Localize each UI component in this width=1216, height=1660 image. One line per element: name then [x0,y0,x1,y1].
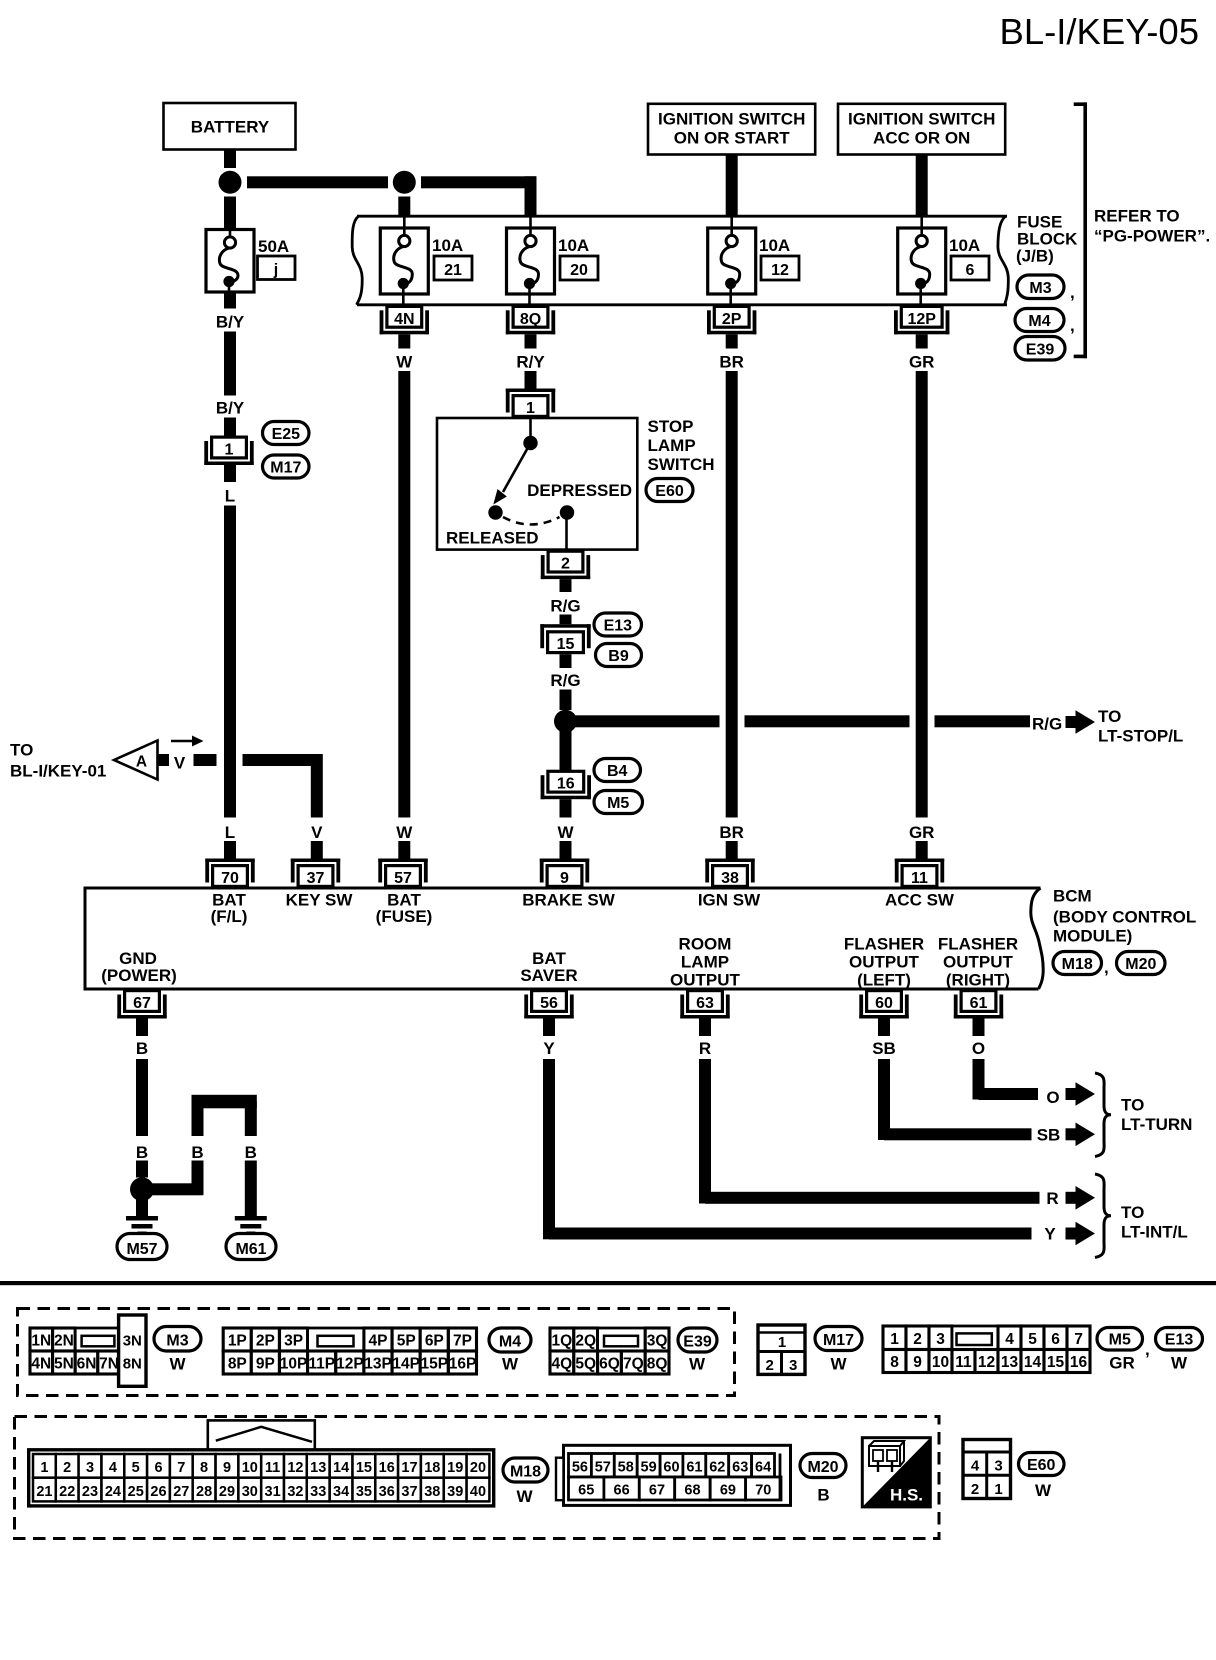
connector 12P [894,306,949,334]
label W brake [557,823,574,842]
svg-text:9: 9 [560,870,569,887]
svg-text:MODULE): MODULE) [1053,927,1132,946]
svg-text:R: R [699,1039,711,1058]
svg-text:“PG-POWER”.: “PG-POWER”. [1094,227,1210,246]
svg-text:STOP: STOP [648,417,694,436]
svg-text:12P: 12P [336,1356,364,1373]
connector oval M5 ref2 [594,791,643,814]
wire R/Y below 8Q [525,334,537,348]
svg-text:68: 68 [684,1483,700,1499]
svg-text:5: 5 [132,1460,140,1476]
svg-text:8Q: 8Q [647,1356,668,1373]
svg-text:2Q: 2Q [575,1333,596,1350]
connector table M4 [223,1328,476,1374]
svg-text:M3: M3 [166,1333,188,1350]
svg-text:(BODY CONTROL: (BODY CONTROL [1053,908,1196,927]
label FLASHER OUTPUT (RIGHT) [938,935,1018,990]
svg-text:L: L [225,823,235,842]
svg-text:31: 31 [265,1484,281,1500]
svg-text:W: W [396,353,413,372]
svg-text:E13: E13 [604,618,633,635]
wire V stub from triangle [158,754,169,766]
label FUSE BLOCK (J/B) [1016,213,1078,266]
svg-text:26: 26 [150,1484,166,1500]
label SB 60 [872,1039,896,1058]
wire V horizontal [243,754,323,766]
label W lower [396,823,413,842]
svg-text:16: 16 [379,1460,395,1476]
label REFER TO PG-POWER [1094,206,1210,245]
svg-text:E39: E39 [683,1334,712,1351]
svg-text:15: 15 [557,636,575,653]
svg-text:15: 15 [1047,1354,1065,1371]
connector oval M5 [1097,1328,1150,1360]
connector 56 [524,991,573,1019]
svg-text:15: 15 [356,1460,372,1476]
svg-text:FLASHER: FLASHER [844,935,924,954]
svg-text:M5: M5 [1109,1332,1131,1349]
wire Y horizontal [549,1228,1032,1240]
svg-text:10A: 10A [432,236,463,255]
label GR upper [909,353,935,372]
svg-text:30: 30 [242,1484,258,1500]
fuse block band left wavy edge [352,216,362,305]
fuse j value box [258,256,296,280]
svg-text:24: 24 [105,1484,121,1500]
wire V to BCM [311,841,323,859]
ignition switch acc-or-on box [838,104,1005,155]
svg-text:W: W [396,823,413,842]
svg-text:E25: E25 [272,426,301,443]
svg-text:1N: 1N [31,1333,51,1350]
stop lamp switch released contact [488,505,502,519]
svg-text:37: 37 [401,1484,417,1500]
svg-text:33: 33 [310,1484,326,1500]
svg-text:R/G: R/G [550,597,580,616]
label M3 color W [169,1355,186,1374]
svg-text:27: 27 [173,1484,189,1500]
svg-text:1: 1 [225,442,234,459]
svg-text:,: , [1145,1340,1150,1359]
svg-text:61: 61 [970,995,988,1012]
svg-text:W: W [516,1487,533,1506]
label M5 color GR [1109,1354,1135,1373]
svg-text:4Q: 4Q [552,1356,573,1373]
label ACC SW [885,891,955,910]
svg-text:GR: GR [909,353,935,372]
svg-text:6: 6 [1051,1331,1060,1348]
svg-text:1Q: 1Q [552,1333,573,1350]
svg-text:(LEFT): (LEFT) [857,971,911,990]
svg-text:4: 4 [971,1458,980,1475]
connector oval M4 ref [1015,309,1075,336]
label B left [136,1143,148,1162]
svg-text:OUTPUT: OUTPUT [670,971,741,990]
label TO LT-INT/L [1121,1203,1188,1242]
svg-text:6: 6 [966,262,975,279]
svg-text:37: 37 [307,870,325,887]
fuse 21 value box [434,256,472,280]
connector 57 [378,859,427,888]
connector 4N [380,306,429,334]
wire W to BCM [398,841,410,859]
arrow Y to LT-INT/L [1066,1222,1096,1246]
svg-text:O: O [972,1039,985,1058]
node bus junction [393,171,416,194]
svg-text:1: 1 [994,1481,1002,1498]
svg-text:63: 63 [696,995,714,1012]
wire bridge right leg lower [245,1161,257,1217]
connector oval M57 [117,1234,167,1260]
svg-text:8: 8 [890,1354,899,1371]
svg-text:R: R [1046,1189,1058,1208]
label R/Y [516,353,545,372]
label R 63 [699,1039,711,1058]
connector oval E13 [1156,1328,1203,1351]
connector oval M18 [503,1458,548,1482]
svg-text:B4: B4 [607,763,628,780]
node ground junction [130,1177,154,1201]
wire L long [224,506,236,818]
connector oval B4 ref [594,759,641,782]
stop lamp switch lever arrow [493,443,530,505]
node R/G junction [554,710,577,733]
connector oval M3 ref [1017,275,1075,302]
svg-text:10P: 10P [280,1356,308,1373]
svg-text:M57: M57 [126,1241,157,1258]
label BR upper [719,353,744,372]
svg-text:11P: 11P [308,1356,335,1373]
label BAT (F/L) [211,891,248,927]
fuse 20 value box [560,256,598,280]
label Y 56 [543,1039,555,1058]
svg-text:70: 70 [755,1483,771,1499]
ignition switch on-or-start box [648,104,815,155]
svg-text:M17: M17 [270,460,301,477]
wire BR to BCM [726,841,738,859]
connector 2P [707,306,756,334]
svg-text:SAVER: SAVER [520,966,577,985]
svg-text:4N: 4N [31,1356,51,1373]
svg-text:28: 28 [196,1484,212,1500]
wire Y down [543,1059,555,1239]
svg-text:B: B [817,1486,829,1505]
label R/G upper [550,597,580,616]
svg-text:SB: SB [872,1039,896,1058]
wire R/Y to connector 1 [525,371,537,389]
wire V corner down [311,754,323,817]
label M18 color W [516,1487,533,1506]
svg-text:LT-INT/L: LT-INT/L [1121,1223,1188,1242]
wire R/G to node [560,690,572,711]
svg-text:38: 38 [424,1484,440,1500]
svg-text:B9: B9 [608,648,629,665]
svg-text:E60: E60 [1027,1457,1056,1474]
wire B long [136,1059,148,1136]
wire W below node [560,721,572,770]
connector 2 [541,551,590,579]
svg-text:7P: 7P [453,1333,472,1350]
svg-text:W: W [1171,1354,1188,1373]
label DEPRESSED [527,481,632,500]
wire battery to fuse 50A [224,197,236,230]
svg-text:36: 36 [379,1484,395,1500]
svg-text:25: 25 [128,1484,144,1500]
arrow SB to LT-TURN [1066,1123,1096,1147]
svg-text:2: 2 [561,556,570,573]
svg-text:DEPRESSED: DEPRESSED [527,481,632,500]
svg-text:5N: 5N [54,1356,74,1373]
connector 38 [705,859,754,888]
svg-text:17: 17 [401,1460,417,1476]
brace LT-INT/L [1095,1174,1111,1258]
connector oval M20 [800,1454,846,1478]
svg-text:Y: Y [1044,1225,1056,1244]
connector 1 E25/M17 [204,437,253,465]
svg-text:B: B [191,1143,203,1162]
svg-text:1: 1 [890,1331,899,1348]
label GND (POWER) [101,949,177,985]
svg-text:2: 2 [63,1460,71,1476]
svg-text:O: O [1046,1088,1059,1107]
svg-text:2: 2 [766,1357,774,1374]
fuse 10A 21 [380,216,428,305]
label ROOM LAMP OUTPUT [670,935,741,990]
svg-text:12: 12 [287,1460,303,1476]
fuse 12 value box [761,256,799,280]
svg-text:B: B [136,1039,148,1058]
svg-text:3N: 3N [123,1333,142,1350]
wire SB down [878,1059,890,1140]
svg-text:BL-I/KEY-05: BL-I/KEY-05 [999,11,1199,52]
label SB arrow [1037,1126,1061,1145]
svg-text:W: W [1035,1481,1052,1500]
svg-text:BLOCK: BLOCK [1017,229,1078,248]
svg-text:Y: Y [543,1039,555,1058]
offpage triangle A [114,741,158,780]
svg-text:M3: M3 [1029,280,1051,297]
svg-text:58: 58 [618,1460,634,1476]
svg-text:8: 8 [200,1460,208,1476]
wire R below 63 [699,1019,711,1037]
svg-text:REFER TO: REFER TO [1094,206,1180,225]
svg-text:R/Y: R/Y [516,353,545,372]
svg-text:12: 12 [978,1354,995,1371]
svg-text:5P: 5P [397,1333,416,1350]
label 10A fuse6 [949,236,980,255]
svg-text:1: 1 [40,1460,48,1476]
ground M57 [126,1216,158,1236]
svg-text:20: 20 [570,262,588,279]
svg-text:TO: TO [1098,707,1121,726]
wire R/G below connector 2 [560,579,572,592]
svg-text:62: 62 [709,1460,725,1476]
connector 63 [680,991,729,1019]
svg-text:,: , [1070,283,1075,302]
label M17 color W [830,1355,847,1374]
svg-text:34: 34 [333,1484,349,1500]
svg-text:TO: TO [1121,1096,1144,1115]
label B/Y upper [216,313,245,332]
svg-text:E13: E13 [1165,1332,1194,1349]
connector oval E25 [263,422,310,445]
stop lamp switch pin1 lead [529,418,532,437]
svg-text:W: W [557,823,574,842]
svg-text:21: 21 [444,262,462,279]
wire W long [398,371,410,818]
svg-text:18: 18 [424,1460,440,1476]
svg-text:LT-STOP/L: LT-STOP/L [1098,726,1183,745]
svg-text:9P: 9P [256,1356,275,1373]
svg-text:63: 63 [732,1460,748,1476]
label TO LT-TURN [1121,1096,1192,1135]
svg-text:40: 40 [470,1484,486,1500]
stop lamp switch box [437,418,637,550]
label M4 color W [502,1355,519,1374]
dashed group box M3/M4/E39 [18,1309,735,1396]
connector 70 [205,859,254,888]
label BR lower [719,823,744,842]
svg-text:35: 35 [356,1484,372,1500]
wire R down [699,1059,711,1204]
wire W to BCM brake [560,841,572,859]
wire ignition on-start to fuse block [726,155,738,218]
connector 11 [895,859,944,888]
wire V dash [194,754,217,766]
connector 61 [954,991,1003,1019]
svg-text:BR: BR [719,353,744,372]
svg-text:2N: 2N [54,1333,74,1350]
svg-text:,: , [1104,958,1109,977]
wire R/G horizontal seg3 [935,715,1031,727]
connector oval E60 ref [646,479,693,502]
label Y arrow [1044,1225,1056,1244]
svg-text:10A: 10A [558,236,589,255]
label KEY SW [286,891,354,910]
svg-text:LAMP: LAMP [648,436,696,455]
label RELEASED [446,529,539,548]
label 10A fuse20 [558,236,589,255]
label 10A fuse12 [759,236,790,255]
wire ignition acc-on to fuse block [916,155,928,218]
connector oval M17 [815,1327,862,1351]
label B 67 [136,1039,148,1058]
svg-text:6Q: 6Q [599,1356,620,1373]
svg-text:,: , [1070,316,1075,335]
fuse block band right wavy edge [998,216,1008,305]
svg-text:R/G: R/G [550,671,580,690]
dashed group box M18/M20 [15,1417,940,1539]
svg-text:7: 7 [177,1460,185,1476]
svg-text:IGN SW: IGN SW [698,891,761,910]
svg-text:59: 59 [641,1460,657,1476]
svg-text:B: B [245,1143,257,1162]
svg-text:64: 64 [755,1460,771,1476]
svg-text:39: 39 [447,1484,463,1500]
connector oval B9 ref [596,644,642,667]
svg-text:10A: 10A [949,236,980,255]
svg-text:R/G: R/G [1032,715,1062,734]
svg-text:ROOM: ROOM [679,935,732,954]
svg-text:L: L [225,487,235,506]
wire R/G horizontal seg2 [745,715,910,727]
svg-text:TO: TO [10,741,33,760]
svg-text:23: 23 [82,1484,98,1500]
wire O horizontal [979,1088,1039,1100]
wire R/G horizontal seg1 [566,715,720,727]
fuse 6 value box [951,256,989,280]
svg-text:57: 57 [595,1460,611,1476]
connector 60 [859,991,908,1019]
svg-text:LT-TURN: LT-TURN [1121,1115,1192,1134]
label BRAKE SW [522,891,616,910]
svg-text:22: 22 [59,1484,75,1500]
svg-text:66: 66 [614,1483,630,1499]
label R/G arrow [1032,715,1062,734]
svg-text:RELEASED: RELEASED [446,529,539,548]
svg-text:7Q: 7Q [623,1356,644,1373]
BCM box [85,888,1043,989]
label IGN SW [698,891,761,910]
svg-text:8P: 8P [228,1356,247,1373]
wire W below 16 [560,799,572,817]
connector oval M17 ref [263,455,310,478]
label B/Y lower [216,399,245,418]
label O 61 [972,1039,985,1058]
arrow to LT-STOP/L [1066,710,1096,734]
wire O below 61 [973,1019,985,1037]
connector 8Q [506,306,555,334]
svg-text:60: 60 [875,995,893,1012]
svg-text:W: W [502,1355,519,1374]
svg-text:6N: 6N [77,1356,97,1373]
svg-text:H.S.: H.S. [890,1486,923,1505]
connector 1 stop lamp switch [506,389,555,418]
svg-text:2: 2 [913,1331,922,1348]
svg-text:E60: E60 [655,483,684,500]
fuse 10A 20 [507,216,555,305]
svg-text:BRAKE SW: BRAKE SW [522,891,616,910]
svg-text:11: 11 [955,1354,972,1371]
wire SB below 60 [878,1019,890,1037]
svg-text:1P: 1P [228,1333,247,1350]
label BAT (FUSE) [376,891,433,927]
svg-text:A: A [136,754,147,771]
wire L to BCM [224,841,236,859]
svg-text:M5: M5 [607,795,629,812]
connector table M3 [30,1315,146,1386]
svg-text:ACC OR ON: ACC OR ON [873,129,970,148]
fuse block band bottom edge [357,303,1007,306]
svg-text:4: 4 [1005,1331,1014,1348]
svg-text:3Q: 3Q [647,1333,668,1350]
svg-text:GR: GR [1109,1354,1135,1373]
svg-text:1: 1 [526,400,535,417]
svg-text:5: 5 [1028,1331,1037,1348]
svg-text:M17: M17 [823,1332,854,1349]
wire bridge left leg lower [192,1161,204,1196]
svg-text:IGNITION SWITCH: IGNITION SWITCH [848,110,995,129]
svg-text:70: 70 [221,870,239,887]
connector oval E39 ref [1015,337,1065,361]
connector oval M18 ref [1053,952,1109,978]
svg-text:(J/B): (J/B) [1016,247,1054,266]
wire R horizontal [705,1192,1040,1204]
svg-text:15P: 15P [421,1356,449,1373]
svg-text:14: 14 [1024,1354,1042,1371]
fuse 50A j [206,230,254,293]
brace LT-TURN [1095,1073,1111,1157]
